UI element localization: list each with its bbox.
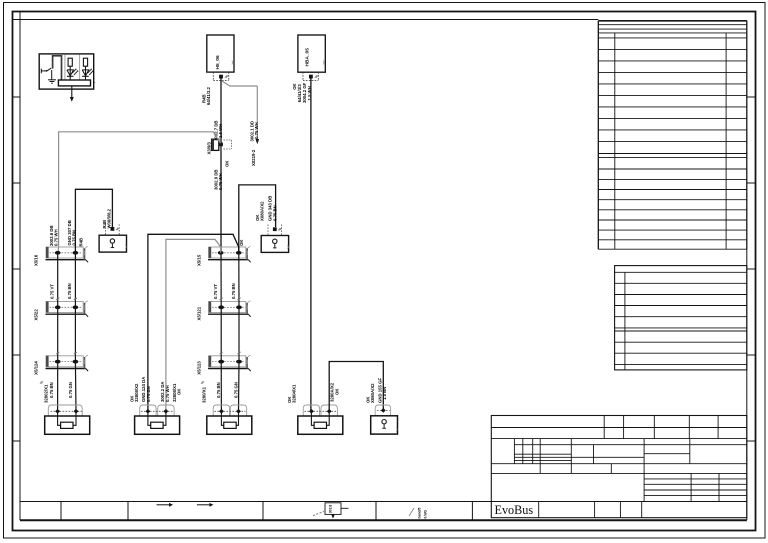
hash mark: [237, 352, 240, 354]
inner drawing border top: [13, 19, 599, 21]
svg-text:OK: OK: [177, 388, 182, 395]
wire X5/124 to ground block 1 right: [74, 362, 77, 412]
svg-text:OK: OK: [239, 239, 244, 246]
title block small revision table: [644, 478, 747, 480]
svg-text:0.75 WH: 0.75 WH: [218, 173, 223, 190]
ground block GB1 32802/X1: [48, 405, 82, 416]
link bracket wire: [53, 56, 62, 80]
pin X3/9/3: [219, 143, 223, 147]
connector X5/15: [209, 247, 246, 258]
svg-text:1.5 WH: 1.5 WH: [218, 124, 223, 138]
svg-text:32802/X1: 32802/X1: [44, 384, 49, 403]
ground block GB4 32804: [303, 405, 319, 416]
svg-text:0.75 GN: 0.75 GN: [68, 382, 73, 398]
wire X5/121 to X5/123 left: [220, 307, 222, 361]
pin GB3 3280: [236, 409, 241, 414]
connector X5/22: [46, 302, 83, 313]
right margin zone ticks: [747, 96, 756, 98]
pin GB3 3280: [219, 409, 224, 414]
svg-text:W08/9/8.2: W08/9/8.2: [107, 208, 112, 228]
resistor R1: [68, 58, 72, 66]
wire X5/15 to X5/121 left: [220, 253, 222, 307]
splice resistor GB2 32808: [151, 422, 163, 428]
svg-text:0.75 BN: 0.75 BN: [231, 283, 236, 299]
title block row lines: [491, 427, 747, 429]
svg-text:HBA_05: HBA_05: [305, 48, 311, 67]
svg-text:0.75 WH: 0.75 WH: [165, 385, 170, 402]
svg-text:0.75 BN: 0.75 BN: [146, 386, 151, 402]
lamp unit K1 W08/9/8.2: [99, 235, 126, 252]
wire ground block 2 to X5/15 (black): [148, 234, 239, 411]
pin GB1 32802/X1: [55, 409, 60, 414]
connector X5/124: [46, 356, 83, 367]
svg-text:EvoBus: EvoBus: [495, 503, 534, 517]
pin X5/124: [55, 360, 61, 364]
svg-text:0.75 WH: 0.75 WH: [54, 229, 59, 246]
pin X5/121: [218, 305, 224, 309]
hash mark: [237, 298, 240, 300]
pin GB2 32808: [146, 409, 151, 414]
pin X5/124: [73, 360, 79, 364]
title block top row columns: [603, 416, 605, 439]
svg-text:0.75 GN: 0.75 GN: [234, 382, 239, 398]
svg-text:X5/22: X5/22: [34, 309, 39, 321]
parts table (top right): [598, 20, 747, 22]
module cell dividers: [64, 55, 66, 81]
title block outer: [491, 416, 747, 518]
hash mark: [220, 298, 223, 300]
pin GB1 32802/X1: [74, 409, 79, 414]
pin GB4 32804: [309, 409, 314, 414]
svg-text:0.75 VT: 0.75 VT: [213, 284, 218, 299]
wire list table column line: [624, 272, 626, 370]
unit HBA_05 box: [298, 35, 325, 72]
ground block GB2 32808: [140, 405, 156, 416]
bottom strip arrow 1: [157, 504, 170, 506]
hash mark: [74, 352, 77, 354]
ground block GB3 3280: [213, 405, 229, 416]
hash mark: [315, 75, 318, 77]
hash mark: [201, 381, 204, 383]
connector X5/121: [209, 302, 246, 313]
pin X5/121: [236, 305, 242, 309]
wire X5/22 to X5/124 left: [57, 307, 59, 361]
pin H5_06:1: [219, 75, 223, 79]
svg-text:64/41/3.2: 64/41/3.2: [206, 86, 211, 105]
wire X5/15 right pin to lamp K2: [239, 185, 276, 253]
splice resistor GB1 32802/X1: [61, 422, 73, 428]
parts table rows: [598, 37, 747, 39]
LED D1: [67, 70, 74, 76]
terminal arrow X0219-2: [256, 139, 260, 144]
svg-text:3280/X1: 3280/X1: [202, 386, 207, 403]
svg-text:X3/9/3: X3/9/3: [206, 141, 211, 154]
svg-text:0.75 WH: 0.75 WH: [254, 122, 259, 139]
svg-text:X5/123: X5/123: [196, 361, 201, 375]
unit H5_06 box: [207, 35, 234, 72]
inner drawing border right: [746, 21, 748, 521]
pin X5/16: [55, 251, 61, 255]
svg-text:0.75 BN: 0.75 BN: [67, 283, 72, 299]
svg-text:band/5: band/5: [418, 507, 422, 518]
LED D2: [82, 70, 89, 76]
hash mark: [40, 381, 43, 383]
connector bracket under H5_06: [212, 72, 214, 80]
pin X5/22: [73, 305, 79, 309]
svg-text:302.8: 302.8: [329, 505, 333, 514]
splice resistor GB4 32804: [314, 422, 326, 428]
bottom strip dashed leader: [313, 512, 324, 516]
junction X3/9/3: [212, 139, 219, 150]
pin HBA_05:1: [309, 75, 313, 79]
hash mark: [116, 228, 119, 230]
wire X5/16 to X5/22 right: [74, 253, 76, 307]
connector X5/123: [209, 356, 246, 367]
bottom strip arrow marker: [332, 514, 334, 516]
wire GND_307 riser to lamp K1: [75, 189, 112, 253]
svg-text:0.75 BN: 0.75 BN: [216, 382, 221, 398]
wire: [69, 66, 71, 80]
inner drawing border left: [19, 12, 21, 521]
hash mark: [220, 352, 223, 354]
pin GB4 32804: [327, 409, 332, 414]
splice resistor GB3 3280: [224, 422, 236, 428]
gray feed wire to junction: [58, 132, 221, 253]
svg-text:X080A/X2: X080A/X2: [260, 201, 265, 221]
hash mark: [56, 298, 59, 300]
wire: [85, 66, 87, 80]
svg-text:0.75 BN: 0.75 BN: [72, 230, 77, 246]
bottom margin strip bottom line: [20, 519, 747, 521]
switch-LED module box: [39, 54, 93, 89]
svg-text:32804/X1: 32804/X1: [292, 384, 297, 403]
pin GB2 32808: [164, 409, 169, 414]
module bus bar: [58, 80, 90, 86]
wire X5/121 to X5/123 right: [238, 307, 240, 361]
pin K2 GND343: [273, 227, 277, 231]
connector bracket under HBA_05: [302, 72, 304, 80]
wire HBA_05 to ground block 4: [310, 79, 312, 412]
resistor R2: [83, 58, 87, 66]
GND155 unit: [375, 405, 390, 416]
svg-text:0.75 BN: 0.75 BN: [49, 382, 54, 398]
wire branch to X0219-2: [222, 81, 258, 86]
module bracket mark: [93, 81, 96, 84]
wire junction to X5/15: [220, 146, 222, 253]
hash mark: [278, 228, 281, 230]
switch S1: [40, 69, 42, 74]
pin X5/15: [218, 251, 224, 255]
hash mark: [225, 75, 228, 77]
svg-text:1.5 BN: 1.5 BN: [382, 387, 387, 400]
title block bottom row columns: [538, 501, 540, 517]
svg-text:0.WG: 0.WG: [424, 509, 428, 518]
title block mid grid: [513, 439, 515, 464]
svg-text:0.75 VT: 0.75 VT: [50, 284, 55, 299]
svg-text:32808/X2: 32808/X2: [134, 383, 139, 402]
wire list table rows: [615, 282, 747, 284]
bottom strip note mark: [409, 508, 414, 516]
pin X5/22: [55, 305, 61, 309]
pin GND155: [381, 408, 386, 413]
bottom strip arrow 2: [197, 504, 210, 506]
pin X5/123: [218, 360, 224, 364]
wire list table (middle right): [615, 266, 747, 370]
ground (module): [48, 79, 56, 81]
switch wire to ground: [51, 70, 53, 80]
svg-text:0.75 BN: 0.75 BN: [272, 205, 277, 221]
bottom strip reference box: [325, 503, 341, 515]
hash mark: [74, 298, 77, 300]
svg-text:OK: OK: [225, 160, 230, 167]
wire ground block 2 to X5/15 (gray): [166, 239, 221, 411]
svg-text:X5/124: X5/124: [34, 361, 39, 375]
pin X5/123: [236, 360, 242, 364]
bottom strip zone dividers: [60, 502, 62, 521]
svg-text:X5/15: X5/15: [196, 254, 201, 266]
bottom margin strip top line: [20, 501, 747, 503]
wire X5/123 to ground block 3 left: [220, 362, 222, 412]
svg-text:R4B: R4B: [79, 238, 84, 247]
connector X5/16: [46, 247, 83, 258]
svg-text:X0219-2: X0219-2: [251, 149, 256, 166]
svg-text:X5/121: X5/121: [196, 306, 201, 320]
wire X5/123 to ground block 3 right: [238, 362, 241, 412]
wire X5/124 to ground block 1 left: [57, 362, 59, 412]
svg-text:OK: OK: [334, 388, 339, 395]
wire ground block 4 to GND155 unit: [329, 362, 383, 412]
svg-text:H5_06: H5_06: [215, 55, 221, 69]
wire H5 pin to junction: [220, 79, 222, 143]
wire X5/16 to X5/22 left: [57, 253, 59, 307]
svg-text:X080A/X2: X080A/X2: [370, 383, 375, 403]
wire X5/22 to X5/124 right: [74, 307, 76, 361]
lamp unit K2 GND343: [261, 236, 288, 253]
wire X5/15 to X5/121 right: [238, 253, 240, 307]
pin X5/15: [236, 251, 242, 255]
parts table column lines: [614, 33, 616, 249]
module output arrow: [71, 86, 73, 97]
left margin zone ticks: [13, 96, 21, 98]
hash mark: [56, 352, 59, 354]
svg-text:X5/16: X5/16: [34, 254, 39, 266]
pin X5/16: [73, 251, 79, 255]
pin K1 W08/9/8.2: [111, 227, 115, 231]
